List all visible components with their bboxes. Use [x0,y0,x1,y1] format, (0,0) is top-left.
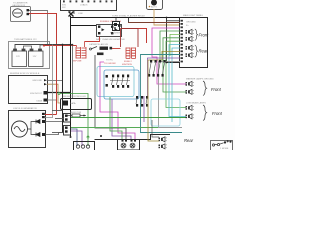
dimmer switch cluster [148,60,166,77]
fusible link X [69,12,74,17]
battery 2 [29,49,44,67]
green wires [160,31,180,62]
svg-text:LINK: LINK [78,13,83,15]
relay contacts [98,25,121,35]
svg-text:DATA: DATA [36,100,42,103]
svg-text:12V: 12V [33,56,37,58]
svg-text:GROUND: GROUND [186,22,196,24]
ECM pin 2 [44,83,47,85]
cyan box 2 [151,99,180,126]
svg-text:Rear: Rear [199,49,209,54]
gray wire [159,62,183,128]
svg-text:Front: Front [199,33,210,38]
svg-text:LINCOLN GENERATOR: LINCOLN GENERATOR [13,107,37,110]
red bus from battery [44,45,77,47]
svg-text:Rear: Rear [184,138,194,143]
svg-text:MAIN LIGHT PANEL: MAIN LIGHT PANEL [183,14,204,17]
battery 1 [12,49,27,67]
svg-text:LOADS: LOADS [80,4,88,7]
svg-text:IGNITION: IGNITION [122,64,132,66]
relay red wires [122,29,147,44]
olive bottom wires [148,60,159,141]
wire bundle into connector [167,18,181,63]
magenta/purple verticals mid [100,62,135,140]
rear lamp icons in box [186,45,194,50]
ammeter gauge box G1 [11,7,31,22]
main vertical from link [70,16,72,137]
fuse coil B [126,48,136,59]
svg-text:12V: 12V [16,56,20,58]
tail lamp box [118,140,140,151]
left connector block 1 [64,114,71,123]
wiring controller [58,93,60,95]
wire gauge to battery (gray) [29,11,48,45]
generator box [9,111,46,148]
olive wire [148,51,180,60]
fuse coil A [76,42,86,59]
ignition switch box top [61,0,117,11]
left dark vertical [62,45,64,133]
magenta feed [152,28,186,84]
left connector block 2 [64,126,71,136]
svg-text:DATA: DATA [70,102,76,105]
small switch cluster 3 [136,96,148,107]
relay box [97,25,122,37]
svg-text:WIRING CONTROLLER: WIRING CONTROLLER [62,96,86,98]
ignition box stubs [69,10,71,12]
svg-text:FUSE 2: FUSE 2 [124,61,132,63]
svg-text:FLASHER: FLASHER [110,32,121,35]
svg-text:TURN SIGNAL FLASHER RELAY: TURN SIGNAL FLASHER RELAY [112,15,145,18]
battery jumper wires [15,45,73,50]
battery + junction dot red [43,44,45,46]
generator diode D2 [33,133,40,137]
generator top pins [42,113,45,115]
generator diode D1 [33,120,40,124]
front lamp icons in box [186,29,194,34]
stub wires to blocks [52,110,63,112]
svg-text:TWIN BATTERIES 12V: TWIN BATTERIES 12V [14,38,37,41]
generator external wires [45,114,57,116]
legend box bottom right [211,141,233,151]
branch to relay box [71,25,97,27]
long green horizontals [71,117,186,119]
svg-text:TO H/L: TO H/L [106,60,114,62]
headlight switch contacts [106,75,130,88]
ECM wires [47,80,63,82]
gauge cluster box [74,142,95,151]
ignition switch terminals row [63,0,113,2]
headlight switch cyan box [97,67,134,97]
cyan wires [169,45,186,117]
red vertical main feed [56,46,58,115]
svg-text:MARKER LAMPS GROUND: MARKER LAMPS GROUND [186,78,214,81]
alternator symbol [12,121,28,137]
tan wire from horn relay [154,9,180,25]
ground path bottom [95,135,171,140]
purple wires to lamp box [71,129,77,146]
svg-text:TO IGN SW: TO IGN SW [104,63,117,65]
connector pins column [181,20,183,63]
gauge dial [13,9,23,17]
generator internal wires [28,122,34,130]
svg-text:GAUGE BOX: GAUGE BOX [12,4,26,7]
battery box [9,42,50,69]
teal wire [141,55,183,133]
svg-text:BUMPER ECM 12V MODULE: BUMPER ECM 12V MODULE [10,73,40,75]
purple wire [148,58,181,96]
wire gauge red feed [29,14,57,46]
svg-text:Front: Front [211,87,222,92]
svg-text:CATERPILLAR SW: CATERPILLAR SW [89,43,109,46]
node junction dots on battery bus [62,44,64,46]
ECM box [9,76,48,104]
svg-text:LOW BEAM LAMPS: LOW BEAM LAMPS [186,102,206,105]
svg-text:AUTO: AUTO [151,6,157,9]
rear lamp icons bottom [159,137,167,142]
svg-text:Front: Front [212,111,223,116]
gauge pins [27,9,30,11]
horn relay box top [147,0,163,10]
ignition red box B [121,29,139,48]
svg-text:W/FUSE: W/FUSE [73,61,82,63]
headlamp connector box [180,18,208,68]
svg-text:1 MORE: 1 MORE [220,148,229,150]
svg-text:GROUND: GROUND [32,80,42,82]
main horizontal bus y18 [71,17,181,19]
svg-text:IGN IN/OUT: IGN IN/OUT [30,93,43,95]
